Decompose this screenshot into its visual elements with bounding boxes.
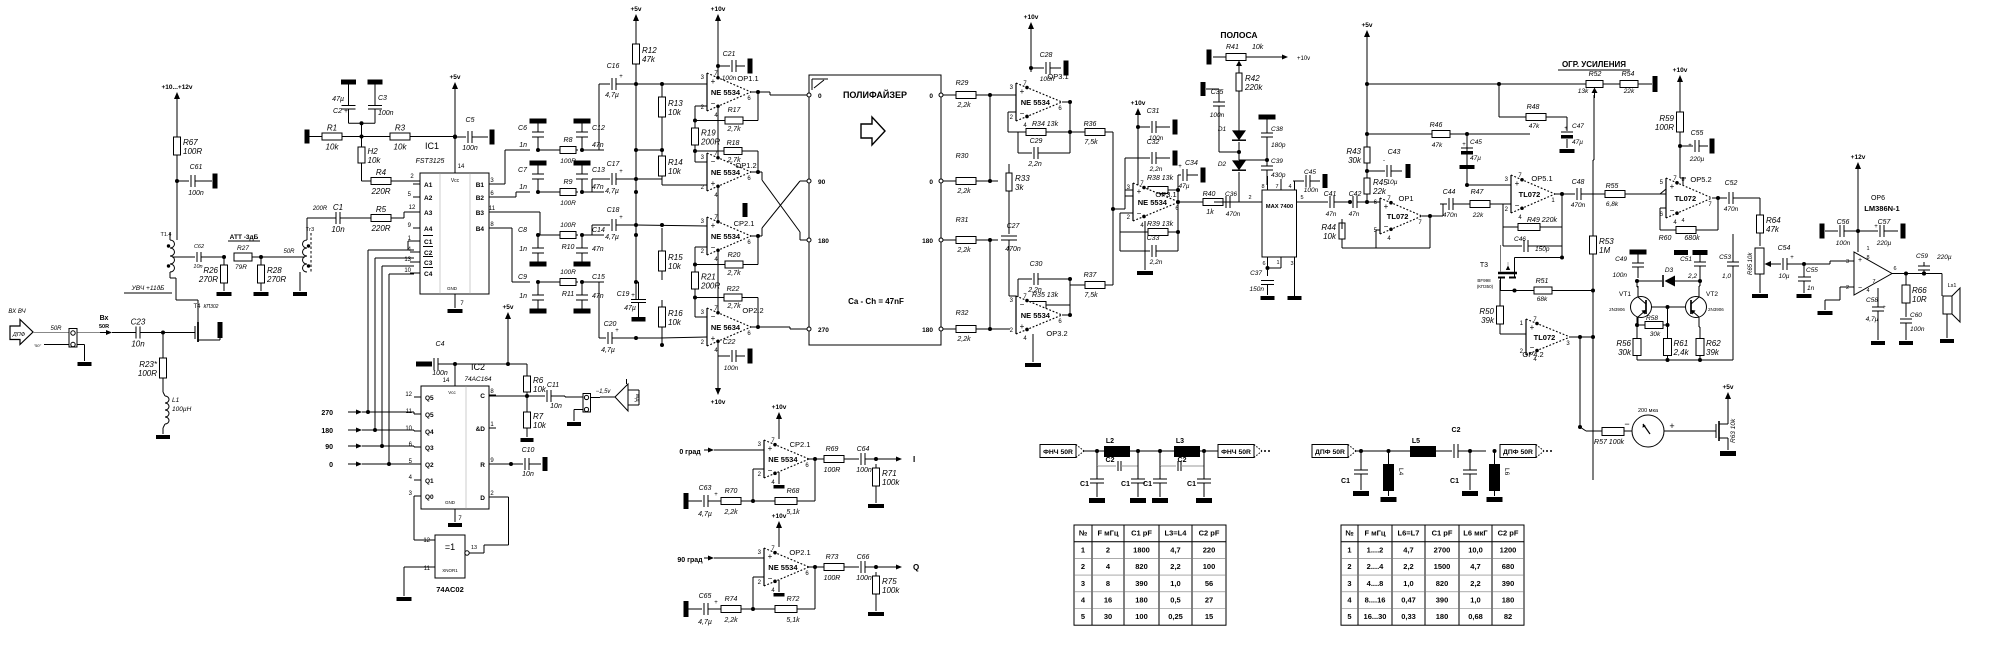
- resistor R57 100k: [1594, 428, 1633, 447]
- svg-text:NE 5634: NE 5634: [711, 323, 741, 332]
- svg-text:R41: R41: [1226, 44, 1239, 51]
- svg-text:R19: R19: [701, 129, 716, 138]
- capacitor C7 1n: [518, 161, 546, 193]
- svg-text:10µ: 10µ: [1779, 273, 1790, 280]
- resistor R14 10k: [659, 117, 684, 185]
- svg-text:+: +: [619, 169, 623, 175]
- svg-text:47k: 47k: [1432, 142, 1443, 149]
- svg-text:C29: C29: [1030, 138, 1043, 145]
- wire R pin: [489, 462, 513, 466]
- op-amp OP2.2: [701, 306, 764, 354]
- svg-text:C55: C55: [1691, 130, 1704, 137]
- svg-text:1,0: 1,0: [1170, 579, 1180, 588]
- svg-text:+: +: [1515, 179, 1520, 188]
- svg-text:R33: R33: [1015, 174, 1030, 183]
- wire B4 row: [496, 228, 530, 282]
- svg-text:C1 pF: C1 pF: [1432, 529, 1453, 538]
- svg-text:1: 1: [1866, 246, 1869, 252]
- svg-text:100k: 100k: [882, 586, 900, 595]
- svg-text:R27: R27: [237, 245, 249, 252]
- svg-text:10k: 10k: [668, 318, 682, 327]
- black bar C61: [213, 174, 218, 189]
- capacitor C53 1.0: [1719, 234, 1739, 360]
- wire OP5.1 in-: [1503, 204, 1516, 227]
- wire B2 row: [496, 192, 530, 197]
- resistor R59 100R: [1655, 83, 1684, 178]
- svg-text:C4: C4: [424, 271, 433, 278]
- svg-text:R53: R53: [1599, 237, 1614, 246]
- svg-text:A4: A4: [424, 226, 433, 233]
- svg-text:+: +: [1384, 202, 1389, 211]
- svg-text:+10...+12v: +10...+12v: [161, 84, 192, 91]
- svg-text:5: 5: [1081, 612, 1085, 621]
- wire iamp fb node: [751, 469, 764, 503]
- svg-text:15: 15: [1205, 612, 1213, 621]
- svg-text:220µ: 220µ: [1689, 156, 1705, 163]
- capacitor C2a bridge: [1097, 451, 1138, 471]
- svg-text:R34 13k: R34 13k: [1032, 121, 1059, 128]
- ground R75: [868, 612, 884, 616]
- wire XS1 lower: [34, 343, 85, 361]
- capacitor C55 220u: [1680, 130, 1715, 163]
- wire LM386 in+: [1810, 261, 1854, 264]
- svg-text:C28: C28: [1040, 52, 1053, 59]
- svg-text:7: 7: [1275, 184, 1278, 190]
- svg-text:390: 390: [1502, 579, 1515, 588]
- svg-text:1n: 1n: [519, 142, 527, 149]
- svg-text:2,2k: 2,2k: [956, 188, 971, 195]
- arrow +10v band: [1280, 55, 1310, 63]
- svg-text:C53: C53: [1719, 254, 1731, 261]
- wire OP5.2 pins: [1660, 177, 1686, 224]
- svg-text:90: 90: [818, 179, 826, 186]
- svg-text:2....4: 2....4: [1367, 562, 1385, 571]
- node BX input label: [8, 309, 26, 315]
- wire R5 to A3: [396, 205, 420, 218]
- resistor R10 100R: [536, 222, 578, 251]
- ground R71: [868, 504, 884, 508]
- table LC filter 2: [1341, 525, 1524, 625]
- svg-text:47n: 47n: [592, 142, 604, 149]
- capacitor C55b 1n: [1798, 262, 1818, 293]
- svg-text:2,2n: 2,2n: [1149, 259, 1163, 266]
- svg-text:C52: C52: [1725, 180, 1738, 187]
- wire OP2.1 inputs: [634, 223, 707, 265]
- svg-text:47n: 47n: [1349, 211, 1360, 218]
- resistor R19 200R: [692, 119, 721, 154]
- svg-text:−: −: [1624, 419, 1629, 429]
- svg-text:R60: R60: [1659, 235, 1672, 242]
- resistor R52 13k trimmer: [1578, 71, 1620, 98]
- capacitor C46 150p: [1503, 227, 1562, 253]
- svg-text:200R: 200R: [312, 206, 328, 212]
- svg-text:180: 180: [1436, 612, 1449, 621]
- svg-text:R9: R9: [564, 179, 573, 186]
- label 50R input: [33, 326, 100, 333]
- svg-text:270: 270: [321, 410, 333, 417]
- capacitor C15 47n: [574, 274, 605, 314]
- svg-text:R66: R66: [1912, 286, 1927, 295]
- power +5v IC1: [449, 74, 460, 97]
- IC1 inner dividers: [440, 173, 470, 294]
- ground IC2: [448, 523, 462, 527]
- svg-text:Ca - Ch = 47nF: Ca - Ch = 47nF: [848, 297, 904, 306]
- inductor L6: [1487, 449, 1511, 502]
- svg-text:47µ: 47µ: [1470, 155, 1481, 162]
- svg-text:47k: 47k: [1766, 225, 1780, 234]
- svg-text:C45: C45: [1470, 139, 1482, 146]
- svg-text:C20: C20: [604, 321, 617, 328]
- svg-text:R71: R71: [882, 469, 897, 478]
- op-amp OP3.1: [1010, 72, 1069, 129]
- svg-text:F мГц: F мГц: [1097, 529, 1118, 538]
- svg-text:4,7µ: 4,7µ: [698, 511, 712, 518]
- inductor L2: [1093, 438, 1174, 457]
- svg-text:2,7k: 2,7k: [726, 126, 741, 133]
- svg-text:R52: R52: [1589, 71, 1602, 78]
- resistor R73 100R: [824, 554, 855, 582]
- svg-text:10k: 10k: [533, 385, 547, 394]
- wire D2 down: [1226, 172, 1239, 202]
- resistor R17 2.7k: [695, 107, 758, 133]
- svg-text:22k: 22k: [1623, 88, 1635, 95]
- op-amp OP1.2: [701, 151, 757, 199]
- resistor R33 3k: [1006, 164, 1030, 198]
- wire +12v: [1856, 170, 1860, 252]
- capacitor C10 10n: [511, 447, 548, 478]
- svg-text:+: +: [768, 552, 773, 561]
- capacitor C48 470n: [1571, 179, 1598, 209]
- svg-text:+: +: [711, 221, 716, 230]
- capacitor C47 47u: [1560, 117, 1585, 153]
- svg-text:C19: C19: [617, 291, 630, 298]
- wire OP1.2 inputs: [634, 151, 707, 185]
- svg-text:+10v: +10v: [772, 513, 787, 520]
- svg-text:+5v: +5v: [630, 6, 641, 13]
- capacitor C1 filter x1160: [1143, 466, 1168, 503]
- svg-text:T3: T3: [1480, 262, 1488, 269]
- svg-text:+10v: +10v: [711, 6, 726, 13]
- svg-text:100R: 100R: [138, 369, 157, 378]
- svg-text:+: +: [711, 334, 716, 343]
- inductor L4: [1381, 449, 1405, 502]
- capacitor C36 470n: [1214, 191, 1242, 218]
- svg-text:180p: 180p: [1271, 142, 1286, 149]
- diode D3: [1635, 267, 1702, 287]
- MAX7400 top pins: [1261, 176, 1294, 190]
- svg-text:100R: 100R: [824, 467, 841, 474]
- svg-text:VT1: VT1: [1619, 291, 1631, 298]
- svg-text:OP3.2: OP3.2: [1046, 329, 1067, 338]
- svg-text:10n: 10n: [193, 264, 202, 270]
- op-amp OP1.1: [701, 71, 759, 119]
- svg-text:10µ: 10µ: [1387, 179, 1398, 186]
- svg-text:R61: R61: [1674, 339, 1689, 348]
- wire C27 bottom: [1009, 262, 1016, 296]
- wire OP1 out: [1376, 204, 1445, 248]
- svg-text:C47: C47: [1572, 123, 1584, 130]
- wire iamp out: [809, 457, 824, 501]
- svg-text:C65: C65: [699, 593, 712, 600]
- wire OP3.1 in wires: [1008, 95, 1018, 132]
- svg-text:+10v: +10v: [772, 404, 787, 411]
- resistor R75 100k: [873, 572, 901, 611]
- svg-text:D2: D2: [1218, 161, 1227, 168]
- svg-text:2: 2: [1248, 195, 1251, 201]
- resistor R2 10k: [358, 137, 381, 168]
- svg-text:4,7µ: 4,7µ: [1866, 316, 1879, 323]
- svg-text:0: 0: [818, 93, 822, 100]
- svg-text:47k: 47k: [642, 55, 656, 64]
- svg-text:R70: R70: [725, 488, 738, 495]
- ground jumper: [567, 410, 583, 427]
- svg-text:+10v: +10v: [1131, 100, 1146, 107]
- svg-text:ОР6: ОР6: [1871, 195, 1885, 202]
- svg-text:39k: 39k: [1481, 316, 1495, 325]
- svg-text:B1: B1: [476, 182, 485, 189]
- svg-text:4,7µ: 4,7µ: [605, 234, 619, 241]
- resistor R63 10k: [1730, 418, 1737, 443]
- svg-text:−: −: [711, 157, 716, 166]
- svg-text:0: 0: [929, 179, 933, 186]
- svg-text:TL072: TL072: [1534, 333, 1556, 342]
- wire R31 R32 join: [988, 238, 1010, 331]
- svg-text:C9: C9: [518, 274, 527, 281]
- svg-text:&D: &D: [476, 426, 486, 433]
- svg-text:1: 1: [1347, 545, 1351, 554]
- resistor R11 100R: [536, 269, 578, 298]
- label 74AC02: [436, 585, 464, 594]
- wire tr3 to C1: [307, 218, 332, 232]
- svg-text:−: −: [1858, 285, 1862, 292]
- capacitor C29 2.2n: [1018, 132, 1062, 168]
- capacitor C2 dpf: [1450, 427, 1486, 458]
- resistor R62 39k: [1696, 327, 1721, 360]
- svg-text:C1: C1: [333, 203, 343, 212]
- svg-text:B3: B3: [476, 210, 485, 217]
- op-amp OP1 TL072: [1374, 194, 1423, 242]
- svg-text:10n: 10n: [522, 471, 534, 478]
- svg-text:C49: C49: [1615, 256, 1627, 263]
- capacitor C12 47n: [574, 119, 605, 151]
- diode D1: [1218, 126, 1246, 140]
- label 50R mid: [283, 249, 295, 255]
- svg-text:2,2: 2,2: [1170, 562, 1180, 571]
- svg-text:C58: C58: [1866, 297, 1878, 304]
- resistor R51 68k: [1501, 278, 1576, 304]
- wire OP3.1 out: [1062, 100, 1080, 153]
- capacitor C1 10n: [331, 203, 345, 234]
- svg-text:C2: C2: [1452, 427, 1461, 434]
- svg-text:10k: 10k: [326, 143, 340, 152]
- svg-text:+: +: [619, 215, 623, 221]
- resistor R69 100R: [824, 446, 855, 474]
- svg-text:ОР2.2: ОР2.2: [742, 306, 763, 315]
- svg-text:−: −: [1020, 109, 1025, 118]
- polyphaser right pins: [922, 93, 952, 334]
- label -1.5v: [591, 389, 612, 398]
- svg-text:=1: =1: [445, 542, 455, 552]
- svg-text:10n: 10n: [331, 225, 345, 234]
- capacitor C57 220u: [1858, 219, 1906, 247]
- wire +10v qamp: [778, 535, 780, 547]
- svg-text:90: 90: [325, 444, 333, 451]
- wire D1 D2: [1219, 124, 1241, 160]
- ground C19: [632, 317, 646, 322]
- svg-text:R42: R42: [1245, 74, 1260, 83]
- svg-text:R38 13k: R38 13k: [1147, 175, 1174, 182]
- svg-text:1200: 1200: [1500, 545, 1517, 554]
- resistor R60 680k: [1659, 198, 1718, 242]
- svg-text:14: 14: [458, 164, 465, 170]
- svg-text:C3: C3: [378, 95, 387, 102]
- svg-text:C43: C43: [1388, 149, 1401, 156]
- svg-text:+: +: [1020, 322, 1025, 331]
- capacitor C39 430p: [1239, 158, 1286, 185]
- svg-text:4: 4: [1288, 184, 1291, 190]
- wire row C6 out: [580, 148, 604, 152]
- wire gate in1: [414, 496, 435, 540]
- svg-text:100k: 100k: [882, 478, 900, 487]
- svg-text:180: 180: [818, 238, 829, 245]
- svg-text:NE 5534: NE 5534: [768, 563, 798, 572]
- resistor R46 47k: [1430, 122, 1530, 149]
- svg-text:4,7µ: 4,7µ: [605, 188, 619, 195]
- svg-text:C1: C1: [1341, 478, 1350, 485]
- svg-text:1n: 1n: [519, 293, 527, 300]
- ground gate: [397, 597, 412, 601]
- svg-text:100n: 100n: [1304, 187, 1319, 194]
- power +5v meter: [1722, 384, 1733, 410]
- svg-text:100n: 100n: [722, 75, 737, 82]
- wire input to C23: [100, 330, 132, 335]
- svg-text:100R: 100R: [1655, 123, 1674, 132]
- capacitor C8 1n: [518, 227, 546, 267]
- capacitor C58 4.7u: [1866, 288, 1887, 340]
- wire R29 R30 join: [988, 93, 1010, 183]
- svg-text:C36: C36: [1225, 191, 1237, 198]
- resistor R34 13k: [1018, 121, 1062, 136]
- capacitor C30 2.2n: [1018, 261, 1062, 294]
- resistor R4 220R: [362, 163, 397, 196]
- wire row C9 out: [580, 280, 604, 284]
- op-amp ОР2.1: [758, 546, 811, 594]
- svg-text:30: 30: [1104, 612, 1112, 621]
- svg-text:R44: R44: [1321, 223, 1336, 232]
- ground R65: [1752, 294, 1768, 298]
- svg-text:27: 27: [1205, 596, 1213, 605]
- capacitor C65 4.7u: [684, 593, 719, 626]
- svg-text:2: 2: [1846, 285, 1849, 291]
- wire +5v IC2: [453, 327, 510, 386]
- svg-text:1: 1: [1276, 260, 1279, 266]
- wire meter feed: [1570, 335, 1596, 431]
- svg-text:−: −: [768, 574, 773, 583]
- capacitor C19 47u: [617, 282, 646, 317]
- svg-text:22k: 22k: [1472, 212, 1484, 219]
- resistor R42 220k: [1236, 66, 1263, 129]
- svg-text:180: 180: [1502, 596, 1515, 605]
- svg-text:10k: 10k: [368, 156, 382, 165]
- svg-text:4,7µ: 4,7µ: [605, 92, 619, 99]
- svg-text:TL072: TL072: [1387, 212, 1409, 221]
- svg-text:A1: A1: [424, 182, 433, 189]
- svg-text:10k: 10k: [668, 167, 682, 176]
- svg-text:L5: L5: [1412, 438, 1420, 445]
- svg-text:1n: 1n: [1807, 285, 1815, 292]
- svg-text:150n: 150n: [1250, 286, 1265, 293]
- wire +5v rail right: [1365, 38, 1369, 144]
- svg-text:R59: R59: [1659, 114, 1674, 123]
- svg-text:+: +: [615, 328, 619, 334]
- svg-text:C57: C57: [1878, 219, 1892, 226]
- svg-text:50R: 50R: [283, 249, 295, 255]
- svg-text:Вх: Вх: [100, 315, 109, 322]
- capacitor C16 4.7u: [582, 63, 636, 150]
- svg-text:R12: R12: [642, 46, 657, 55]
- table LC filter 1: [1074, 525, 1226, 625]
- svg-text:+: +: [1858, 257, 1862, 264]
- resistor R64 47k: [1755, 198, 1781, 246]
- power +10v q1: [772, 404, 787, 427]
- svg-text:L3=L4: L3=L4: [1165, 529, 1188, 538]
- svg-text:6: 6: [1893, 266, 1896, 272]
- svg-text:39k: 39k: [1706, 348, 1720, 357]
- svg-text:−: −: [1020, 300, 1025, 309]
- wire mid join: [1111, 132, 1125, 285]
- svg-text:10,0: 10,0: [1468, 545, 1483, 554]
- svg-text:4,7: 4,7: [1470, 562, 1480, 571]
- svg-text:390: 390: [1135, 579, 1148, 588]
- svg-text:30k: 30k: [1650, 331, 1661, 338]
- wire C1 to R5: [344, 217, 367, 219]
- svg-text:R28: R28: [267, 266, 282, 275]
- svg-text:LM386N-1: LM386N-1: [1864, 204, 1899, 213]
- power +10v OP3: [1024, 14, 1039, 37]
- capacitor C1 filter x1138: [1121, 466, 1146, 503]
- resistor R23 100R: [138, 354, 167, 382]
- svg-text:10k: 10k: [533, 421, 547, 430]
- svg-text:7: 7: [1872, 279, 1875, 285]
- polyphaser label Ca-Ch: [848, 297, 904, 306]
- power +12v: [1851, 154, 1866, 177]
- svg-text:47n: 47n: [592, 246, 604, 253]
- svg-text:C38: C38: [1271, 126, 1283, 133]
- ground C58: [1871, 341, 1885, 345]
- wire +10v rail: [717, 22, 719, 74]
- svg-text:C39: C39: [1271, 158, 1283, 165]
- svg-text:C2 pF: C2 pF: [1498, 529, 1519, 538]
- resistor R22 2.7k: [695, 286, 758, 310]
- svg-text:C10: C10: [522, 447, 535, 454]
- svg-text:100n: 100n: [1210, 112, 1225, 119]
- transistor VT1: [1609, 281, 1686, 327]
- capacitor C35 100n: [1201, 82, 1226, 124]
- svg-text:R64: R64: [1766, 216, 1781, 225]
- resistor R9 100R: [536, 179, 578, 207]
- svg-text:50R: 50R: [50, 326, 62, 332]
- wire OP5.1 in+: [1465, 134, 1511, 187]
- svg-text:100n: 100n: [856, 467, 872, 474]
- svg-text:№: №: [1345, 529, 1353, 538]
- svg-text:13: 13: [471, 545, 477, 551]
- svg-text:C16: C16: [607, 63, 620, 70]
- ground under R26: [217, 283, 232, 296]
- svg-text:10: 10: [405, 426, 412, 432]
- svg-text:C2: C2: [1106, 457, 1115, 464]
- svg-text:+10v: +10v: [1673, 67, 1688, 74]
- svg-text:5,1k: 5,1k: [786, 509, 800, 516]
